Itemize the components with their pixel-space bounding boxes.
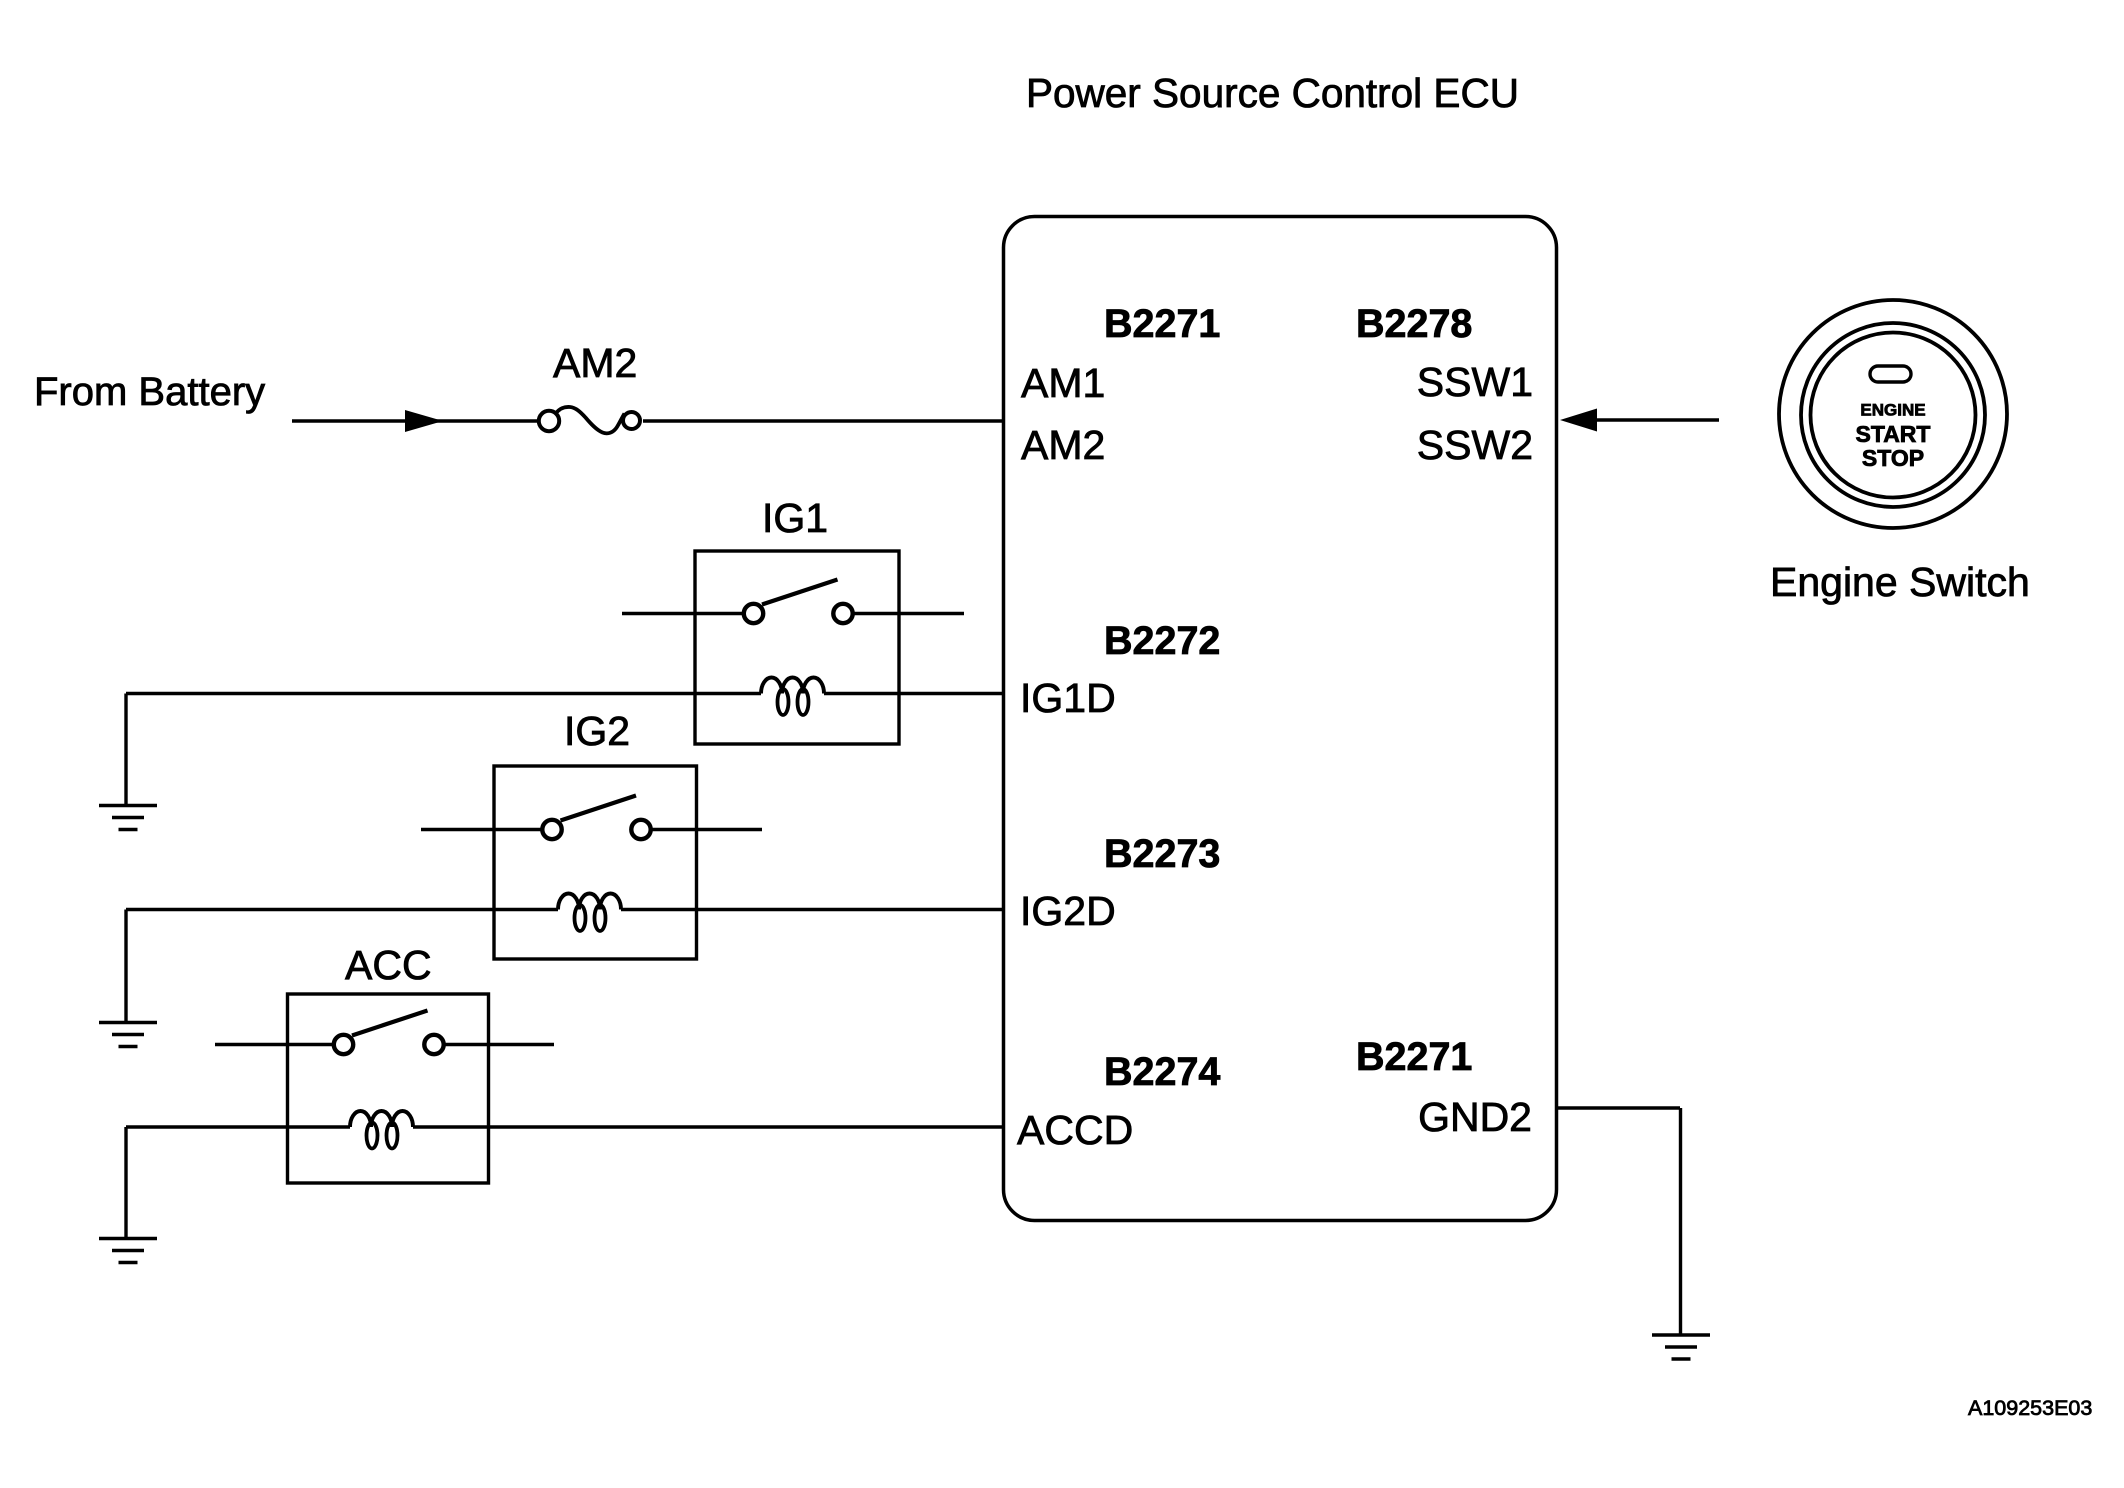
relay IG2 box <box>494 766 697 959</box>
pin IG1D <box>1020 675 1116 721</box>
engine switch SW1 (push button) <box>1779 300 2007 528</box>
fuse AM2 value label <box>553 340 637 386</box>
wire: ACC switch out right stub <box>445 1043 554 1046</box>
fuse AM2 <box>539 407 640 433</box>
relay IG1 box <box>695 551 899 744</box>
svg-text:B2271: B2271 <box>1104 302 1220 346</box>
pin GND2 <box>1418 1094 1532 1140</box>
svg-text:ACCD: ACCD <box>1017 1107 1133 1153</box>
connector label B2271 (bottom right) <box>1356 1035 1472 1079</box>
wire: fuse to ECU AM pins (right segment) <box>643 419 1003 422</box>
wire IG2D net: ECU IG2D to coil and down to ground <box>126 910 1003 1023</box>
svg-text:STOP: STOP <box>1862 445 1924 471</box>
title: Power Source Control ECU <box>1026 70 1519 116</box>
pin ACCD <box>1017 1107 1133 1153</box>
svg-text:Power Source Control ECU: Power Source Control ECU <box>1026 70 1519 116</box>
svg-text:IG2: IG2 <box>564 708 630 754</box>
ground G2 (IG2 relay coil ground) <box>99 1023 157 1047</box>
svg-text:SSW2: SSW2 <box>1417 422 1533 468</box>
relay IG2 switch contact <box>542 796 650 840</box>
relay ACC value label <box>345 942 432 988</box>
wire IG1D net: ECU IG1D to coil and down to ground <box>126 694 1003 807</box>
connector label B2271 (top left) <box>1104 302 1220 346</box>
svg-text:IG1D: IG1D <box>1020 675 1116 721</box>
svg-text:ACC: ACC <box>345 942 432 988</box>
relay IG2 coil <box>558 894 621 932</box>
relay IG1 coil <box>761 678 824 716</box>
ground G3 (ACC relay coil ground) <box>99 1239 157 1263</box>
wire: battery feed into AM1/AM2 (left segment) <box>292 419 538 422</box>
relay IG1 switch contact <box>744 580 853 624</box>
wire: IG2 switch out right stub <box>652 828 762 831</box>
connector label B2272 <box>1104 619 1220 663</box>
engine switch label <box>1770 559 2030 605</box>
ground G4 (GND2) <box>1652 1335 1710 1359</box>
ground G1 (IG1 relay coil ground) <box>99 806 157 830</box>
connector label B2273 <box>1104 832 1220 876</box>
relay ACC switch contact <box>334 1011 444 1055</box>
pin AM1 <box>1021 360 1105 406</box>
svg-text:B2278: B2278 <box>1356 302 1472 346</box>
svg-text:AM1: AM1 <box>1021 360 1105 406</box>
wire ACCD net: ECU ACCD to coil and down to ground <box>126 1127 1003 1239</box>
wire SSW net: engine switch to SSW1/SSW2 <box>1596 418 1719 421</box>
relay IG1 value label <box>762 495 828 541</box>
relay ACC coil <box>350 1111 413 1149</box>
wire: IG1 switch feed left stub <box>622 612 743 615</box>
wire: IG2 switch feed left stub <box>421 828 541 831</box>
svg-text:B2272: B2272 <box>1104 619 1220 663</box>
ECU box: Power Source Control ECU outline <box>1004 217 1557 1221</box>
svg-text:ENGINE: ENGINE <box>1860 401 1925 420</box>
svg-text:From Battery: From Battery <box>34 370 265 414</box>
svg-text:B2274: B2274 <box>1104 1050 1220 1094</box>
wire: ACC switch feed left stub <box>215 1043 333 1046</box>
svg-text:GND2: GND2 <box>1418 1094 1532 1140</box>
relay ACC box <box>288 994 489 1183</box>
svg-text:B2271: B2271 <box>1356 1035 1472 1079</box>
pin SSW2 <box>1417 422 1533 468</box>
relay IG2 value label <box>564 708 630 754</box>
svg-text:IG2D: IG2D <box>1020 888 1116 934</box>
svg-text:AM2: AM2 <box>1021 422 1105 468</box>
svg-text:IG1: IG1 <box>762 495 828 541</box>
svg-text:SSW1: SSW1 <box>1417 359 1533 405</box>
wire: battery feed arrowhead <box>405 410 443 432</box>
svg-text:AM2: AM2 <box>553 340 637 386</box>
wire GND2 net: ECU GND2 to ground <box>1556 1108 1681 1335</box>
wire SSW arrowhead into ECU <box>1560 409 1597 432</box>
connector label B2274 <box>1104 1050 1220 1094</box>
svg-text:Engine Switch: Engine Switch <box>1770 559 2030 605</box>
pin IG2D <box>1020 888 1116 934</box>
doc number A109253E03 <box>1968 1396 2092 1420</box>
svg-text:START: START <box>1856 421 1931 447</box>
pin SSW1 <box>1417 359 1533 405</box>
svg-text:B2273: B2273 <box>1104 832 1220 876</box>
node: From Battery source label <box>34 370 265 414</box>
connector label B2278 (top right) <box>1356 302 1472 346</box>
wire: IG1 switch out right stub <box>854 612 964 615</box>
pin AM2 <box>1021 422 1105 468</box>
svg-text:A109253E03: A109253E03 <box>1968 1396 2092 1420</box>
